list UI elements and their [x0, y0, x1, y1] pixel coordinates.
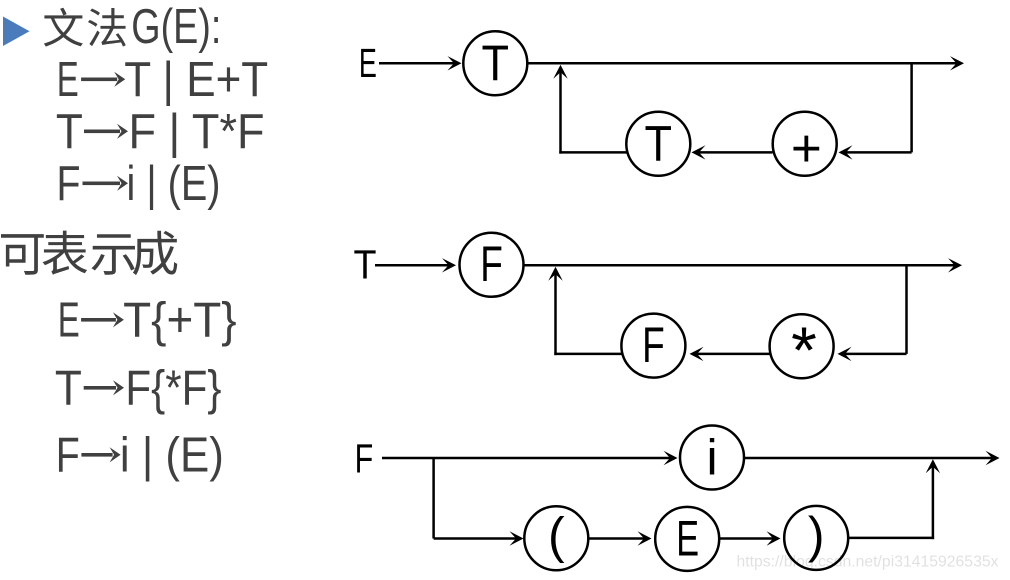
node circle star [770, 313, 834, 387]
heading 文法G(E): [44, 0, 221, 54]
ebnf line E->T{+T} [58, 294, 237, 348]
svg-text:F: F [56, 429, 80, 483]
grammar line T->F | T*F [56, 105, 265, 159]
svg-text:T | E+T: T | E+T [124, 53, 268, 107]
svg-text:G(E):: G(E): [131, 0, 221, 54]
text 可表示成 [1, 231, 177, 275]
bullet triangle [3, 17, 30, 47]
svg-text:E: E [57, 53, 79, 107]
svg-text:E: E [676, 510, 699, 566]
wire main out of F1 [524, 264, 956, 267]
node circle paren open [524, 506, 588, 570]
wire paren open to E [589, 537, 646, 540]
grammar line F->i | (E) [57, 157, 221, 211]
svg-text:i | (E): i | (E) [120, 429, 224, 483]
svg-text:E: E [359, 40, 377, 86]
svg-text:F: F [355, 435, 374, 481]
wire T2 to left riser [559, 151, 627, 154]
wire right drop (diagram 2) [905, 265, 908, 354]
svg-text:T: T [354, 242, 377, 288]
wire paren close to right riser [848, 537, 934, 540]
wire main out of i [745, 457, 994, 460]
wire branch into paren open [434, 537, 518, 540]
wire branch drop (diagram 3) [432, 458, 435, 539]
node circle T2 [626, 112, 690, 176]
ebnf line T->F{*F} [55, 362, 222, 416]
wire star to F2 [696, 353, 770, 356]
wire main out of T1 [528, 62, 959, 65]
node circle F2 [621, 314, 685, 378]
node circle paren close [784, 506, 848, 570]
svg-text:F: F [480, 236, 503, 292]
node circle i [680, 426, 744, 490]
wire E to paren close [719, 537, 774, 540]
svg-text:i: i [706, 430, 717, 486]
svg-text:F{*F}: F{*F} [125, 362, 221, 416]
svg-text:F: F [57, 157, 81, 211]
wire loop into star [844, 353, 907, 356]
wire main F to circle i [382, 457, 672, 460]
node circle F1 [460, 233, 524, 297]
wire plus to T2 [698, 151, 773, 154]
svg-text:F | T*F: F | T*F [129, 105, 265, 159]
ebnf line F->i | (E) [56, 429, 224, 483]
svg-text:+: + [791, 119, 822, 178]
svg-text:T: T [645, 115, 673, 171]
svg-text:(: ( [548, 507, 565, 563]
svg-text:i | (E): i | (E) [127, 157, 221, 211]
svg-text:E: E [58, 294, 80, 348]
svg-text:F: F [642, 317, 665, 373]
node circle plus [773, 112, 837, 178]
svg-text:T: T [482, 35, 510, 91]
svg-text:https://blog.csdn.net/pi314159: https://blog.csdn.net/pi31415926535x [737, 554, 999, 571]
wire right drop (diagram 1) [910, 63, 913, 152]
svg-text:T{+T}: T{+T} [123, 294, 237, 348]
wire left riser up (diagram 2) [554, 273, 557, 355]
wire T to circle F1 [375, 264, 450, 267]
wire left riser up (diagram 1) [559, 71, 562, 154]
wire E to circle T1 [379, 62, 456, 65]
grammar line E->T | E+T [57, 53, 269, 107]
node circle E2 [655, 507, 719, 571]
svg-text:T: T [56, 105, 83, 159]
svg-text:*: * [791, 313, 817, 387]
wire loop into plus [845, 151, 912, 154]
wire right riser up (diagram 3) [932, 465, 935, 539]
wire F2 to left riser [554, 353, 622, 356]
node circle T1 [463, 31, 527, 95]
svg-text:T: T [55, 362, 82, 416]
